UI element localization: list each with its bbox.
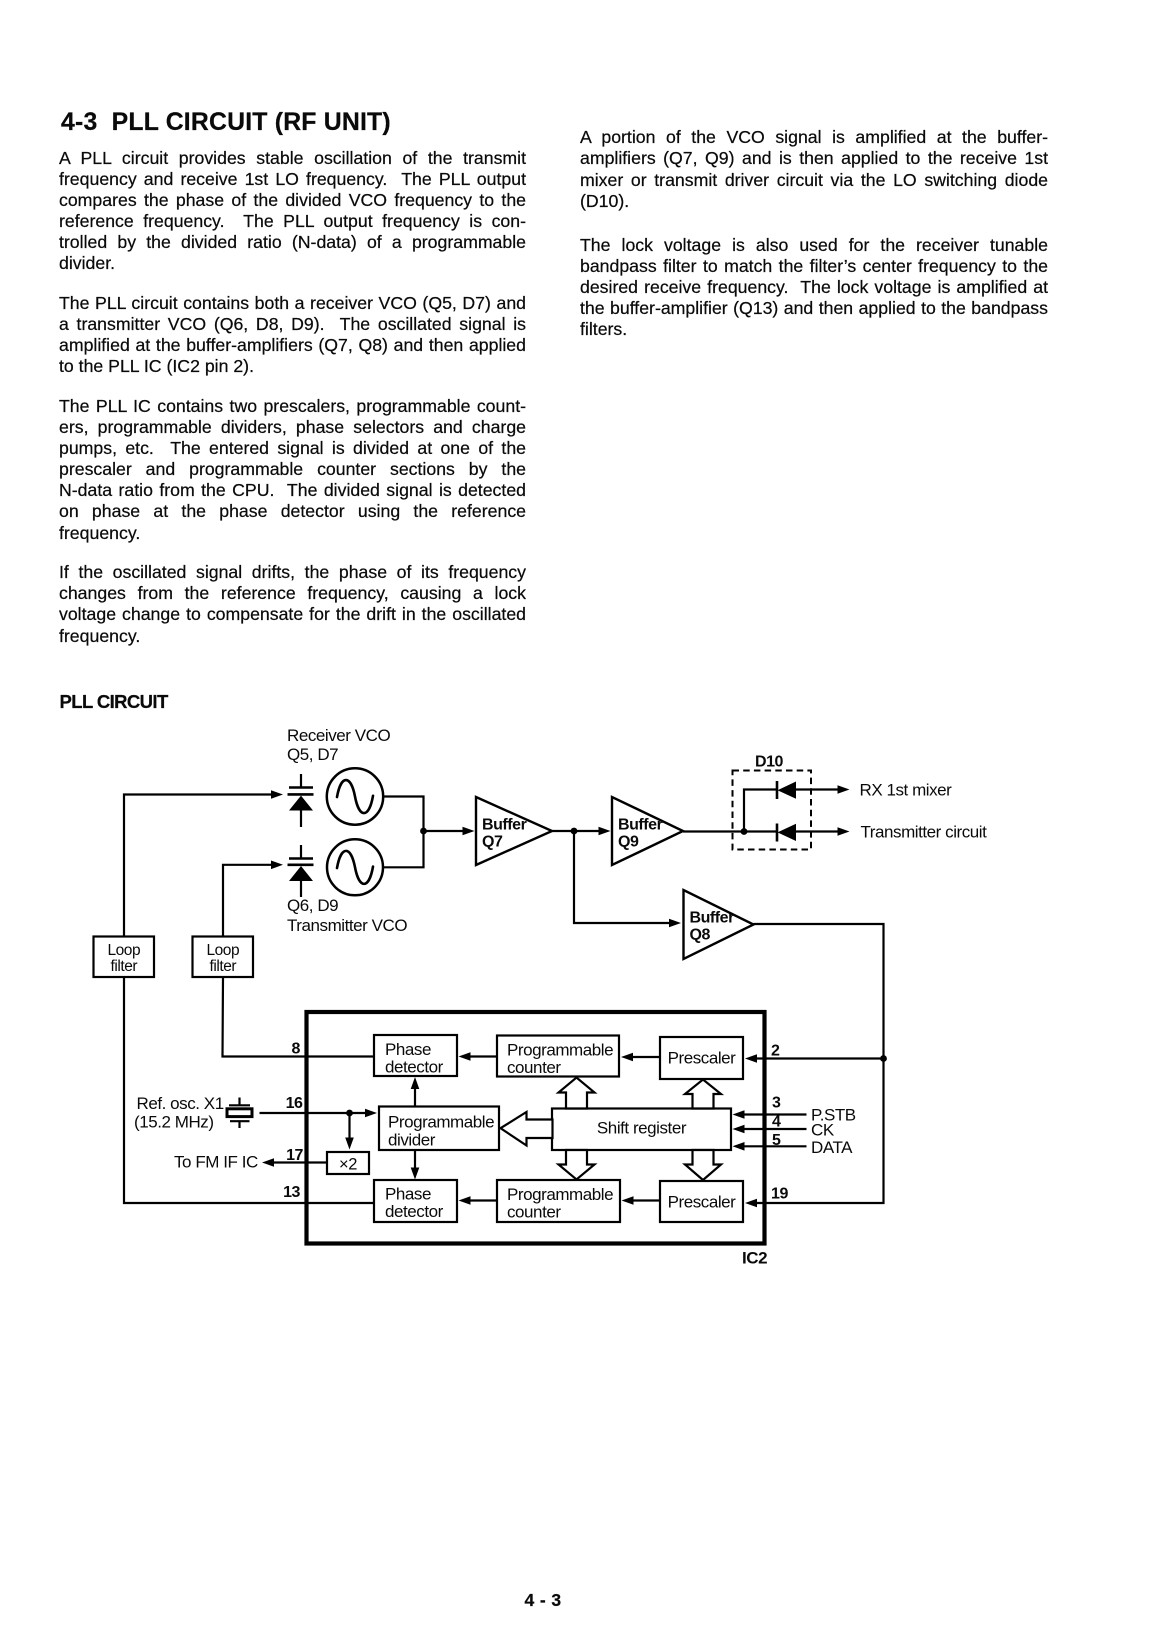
left text column	[59, 148, 526, 665]
node junction at pin 16	[346, 1110, 353, 1117]
page number	[493, 1590, 593, 1611]
arrowhead pin 2 into prescaler top	[745, 1054, 757, 1063]
svg-text:13: 13	[283, 1184, 300, 1201]
wire: loop filter 2 down to IC2 pin 8	[223, 977, 374, 1057]
node junction pin2/pin19	[880, 1055, 887, 1062]
wire: pin 5 DATA	[742, 1145, 807, 1147]
prescaler box (bottom)	[660, 1181, 743, 1222]
svg-text:(15.2 MHz): (15.2 MHz)	[134, 1113, 214, 1132]
arrowhead into programmable counter bottom	[622, 1196, 634, 1205]
svg-text:Shift register: Shift register	[597, 1119, 687, 1138]
arrowhead into programmable counter top	[621, 1053, 633, 1062]
loop filter box 2	[193, 937, 254, 978]
arrowhead pin 16 into programmable divider	[365, 1109, 377, 1118]
wire: buffer Q8 output down to IC2 pin 2 and pin 19	[754, 924, 884, 1203]
arrowhead pin 17 to FM IF IC	[262, 1158, 274, 1167]
wire: loop filter 2 to transmitter VCO varactor	[223, 865, 272, 937]
svg-text:Receiver VCO: Receiver VCO	[287, 726, 390, 745]
svg-text:Prescaler: Prescaler	[668, 1193, 737, 1212]
wire: branch down to x2 doubler	[348, 1113, 350, 1140]
svg-text:2: 2	[771, 1043, 780, 1060]
phase detector box (top)	[374, 1035, 457, 1076]
diode D10 upper (to RX 1st mixer)	[777, 781, 796, 799]
programmable divider box	[379, 1107, 499, 1151]
svg-text:19: 19	[771, 1186, 788, 1203]
svg-text:Phase: Phase	[385, 1185, 431, 1204]
wire: pin 17 x2 doubler out to FM IF IC	[272, 1161, 327, 1163]
PLL IC IC2 outer box	[307, 1012, 765, 1244]
wire: ref osc X1 into pin 16 and programmable divider	[260, 1112, 368, 1114]
wire: buffer Q9 output into D10	[683, 830, 776, 832]
programmable counter box (bottom)	[497, 1180, 620, 1222]
varactor diode D9 (transmitter VCO)	[288, 845, 314, 897]
svg-text:CK: CK	[811, 1121, 835, 1140]
buffer amplifier Q8	[684, 890, 754, 959]
wire: node to buffer Q7 input	[424, 830, 466, 832]
node junction after buffer Q7	[571, 828, 578, 835]
arrowhead into buffer Q7	[463, 827, 475, 836]
wire: pin 4 CK	[742, 1128, 807, 1130]
right text column	[580, 127, 1048, 363]
svg-text:IC2: IC2	[742, 1249, 767, 1268]
prescaler box (top)	[660, 1037, 743, 1079]
buffer amplifier Q7	[476, 797, 552, 865]
arrowhead down into x2 doubler	[345, 1138, 354, 1150]
svg-text:Q7: Q7	[482, 834, 503, 851]
D10 dashed enclosure	[733, 771, 812, 850]
svg-text:Buffer: Buffer	[618, 817, 663, 834]
wire: transmitter VCO output	[383, 831, 424, 867]
arrowhead pin 5 into shift register	[733, 1142, 745, 1151]
wire: prescaler to programmable counter (top)	[631, 1056, 660, 1058]
svg-text:counter: counter	[507, 1203, 561, 1222]
svg-text:17: 17	[286, 1147, 303, 1164]
svg-text:Programmable: Programmable	[388, 1112, 494, 1131]
hollow arrow shift register up to programmable counter	[559, 1078, 595, 1109]
wire: loop filter 1 to receiver VCO varactor	[124, 795, 272, 937]
svg-text:Q8: Q8	[690, 927, 711, 944]
svg-text:×2: ×2	[339, 1156, 357, 1174]
svg-text:Loop: Loop	[206, 942, 239, 959]
wire: receiver VCO output	[384, 797, 424, 832]
wire: D10 lower diode to transmitter circuit arrow	[796, 830, 840, 832]
shift register box	[552, 1109, 731, 1151]
wire: pin 2 into prescaler	[755, 1057, 884, 1059]
buffer amplifier Q9	[612, 797, 683, 865]
wire: pin 3 P.STB	[742, 1113, 807, 1115]
arrowhead to transmitter circuit	[838, 827, 850, 836]
wire: D10 upper diode to RX 1st mixer arrow	[796, 788, 840, 790]
hollow arrow shift register down to programmable counter	[559, 1150, 595, 1180]
svg-text:Buffer: Buffer	[482, 817, 527, 834]
diode D10 lower (to transmitter circuit)	[777, 824, 796, 842]
wire: loop filter 1 down to IC2 pin 13	[124, 977, 373, 1203]
svg-text:Transmitter circuit: Transmitter circuit	[861, 823, 988, 842]
arrowhead pin 19 into prescaler bottom	[745, 1199, 757, 1208]
arrowhead into receiver varactor	[271, 790, 283, 799]
crystal X1 symbol	[227, 1098, 252, 1129]
arrowhead pin 3 into shift register	[733, 1110, 745, 1119]
node junction at VCO outputs	[420, 828, 427, 835]
svg-text:Q9: Q9	[618, 834, 639, 851]
svg-text:Programmable: Programmable	[507, 1040, 613, 1059]
arrowhead pin 4 into shift register	[733, 1125, 745, 1134]
svg-text:Loop: Loop	[107, 942, 140, 959]
wire: node down to buffer Q8 input	[574, 831, 671, 923]
svg-text:DATA: DATA	[811, 1138, 853, 1157]
arrowhead into buffer Q8	[669, 919, 681, 928]
wire: programmable counter to phase detector (bottom)	[468, 1199, 497, 1201]
svg-text:5: 5	[772, 1132, 781, 1149]
hollow arrow shift register left into programmable divider	[501, 1112, 553, 1146]
hollow arrow shift register down to prescaler	[685, 1150, 721, 1180]
oscillator circle transmitter VCO	[327, 839, 383, 895]
svg-text:D10: D10	[755, 754, 784, 771]
arrowhead divider down into phase detector	[411, 1168, 420, 1180]
svg-text:To FM IF IC: To FM IF IC	[174, 1153, 258, 1172]
svg-text:Programmable: Programmable	[507, 1185, 613, 1204]
wire: prescaler to programmable counter (bottom)	[631, 1199, 660, 1201]
hollow arrow shift register up to prescaler	[685, 1080, 721, 1109]
arrowhead divider up into phase detector	[411, 1077, 420, 1089]
svg-text:counter: counter	[507, 1058, 561, 1077]
arrowhead into buffer Q9	[599, 827, 611, 836]
node junction in D10 branch	[741, 828, 748, 835]
svg-text:filter: filter	[111, 958, 138, 975]
svg-text:detector: detector	[385, 1202, 444, 1221]
svg-text:RX 1st mixer: RX 1st mixer	[860, 781, 953, 800]
arrowhead into transmitter varactor	[271, 861, 283, 870]
svg-text:Q6, D9: Q6, D9	[287, 896, 338, 915]
oscillator circle receiver VCO	[327, 768, 383, 824]
wire: D10 branch up to upper diode	[744, 790, 776, 832]
phase detector box (bottom)	[374, 1180, 457, 1222]
svg-text:Phase: Phase	[385, 1040, 431, 1059]
varactor diode D7 (receiver VCO)	[288, 774, 314, 827]
section title	[61, 109, 391, 137]
arrowhead to RX 1st mixer	[838, 785, 850, 794]
wire: programmable divider up to phase detector	[414, 1086, 416, 1107]
svg-text:Q5, D7: Q5, D7	[287, 745, 338, 764]
svg-text:8: 8	[292, 1041, 301, 1058]
svg-text:detector: detector	[385, 1058, 444, 1077]
diagram section heading	[60, 691, 168, 713]
svg-text:3: 3	[772, 1095, 781, 1112]
arrowhead into phase detector top	[459, 1052, 471, 1061]
svg-text:Buffer: Buffer	[690, 910, 735, 927]
x2 frequency doubler box	[327, 1152, 369, 1174]
svg-text:Ref. osc. X1: Ref. osc. X1	[137, 1094, 224, 1113]
wire: buffer Q7 output to node	[552, 830, 601, 832]
loop filter box 1	[94, 937, 155, 978]
wire: programmable counter to phase detector (top)	[468, 1055, 497, 1057]
svg-text:Transmitter VCO: Transmitter VCO	[287, 916, 407, 935]
arrowhead into phase detector bottom	[459, 1196, 471, 1205]
svg-text:divider: divider	[388, 1130, 436, 1149]
svg-text:Prescaler: Prescaler	[668, 1049, 737, 1068]
programmable counter box (top)	[497, 1036, 619, 1077]
svg-text:4: 4	[772, 1113, 781, 1130]
svg-text:16: 16	[286, 1095, 303, 1112]
wire: programmable divider down to phase detector	[414, 1150, 416, 1170]
svg-text:filter: filter	[210, 958, 237, 975]
